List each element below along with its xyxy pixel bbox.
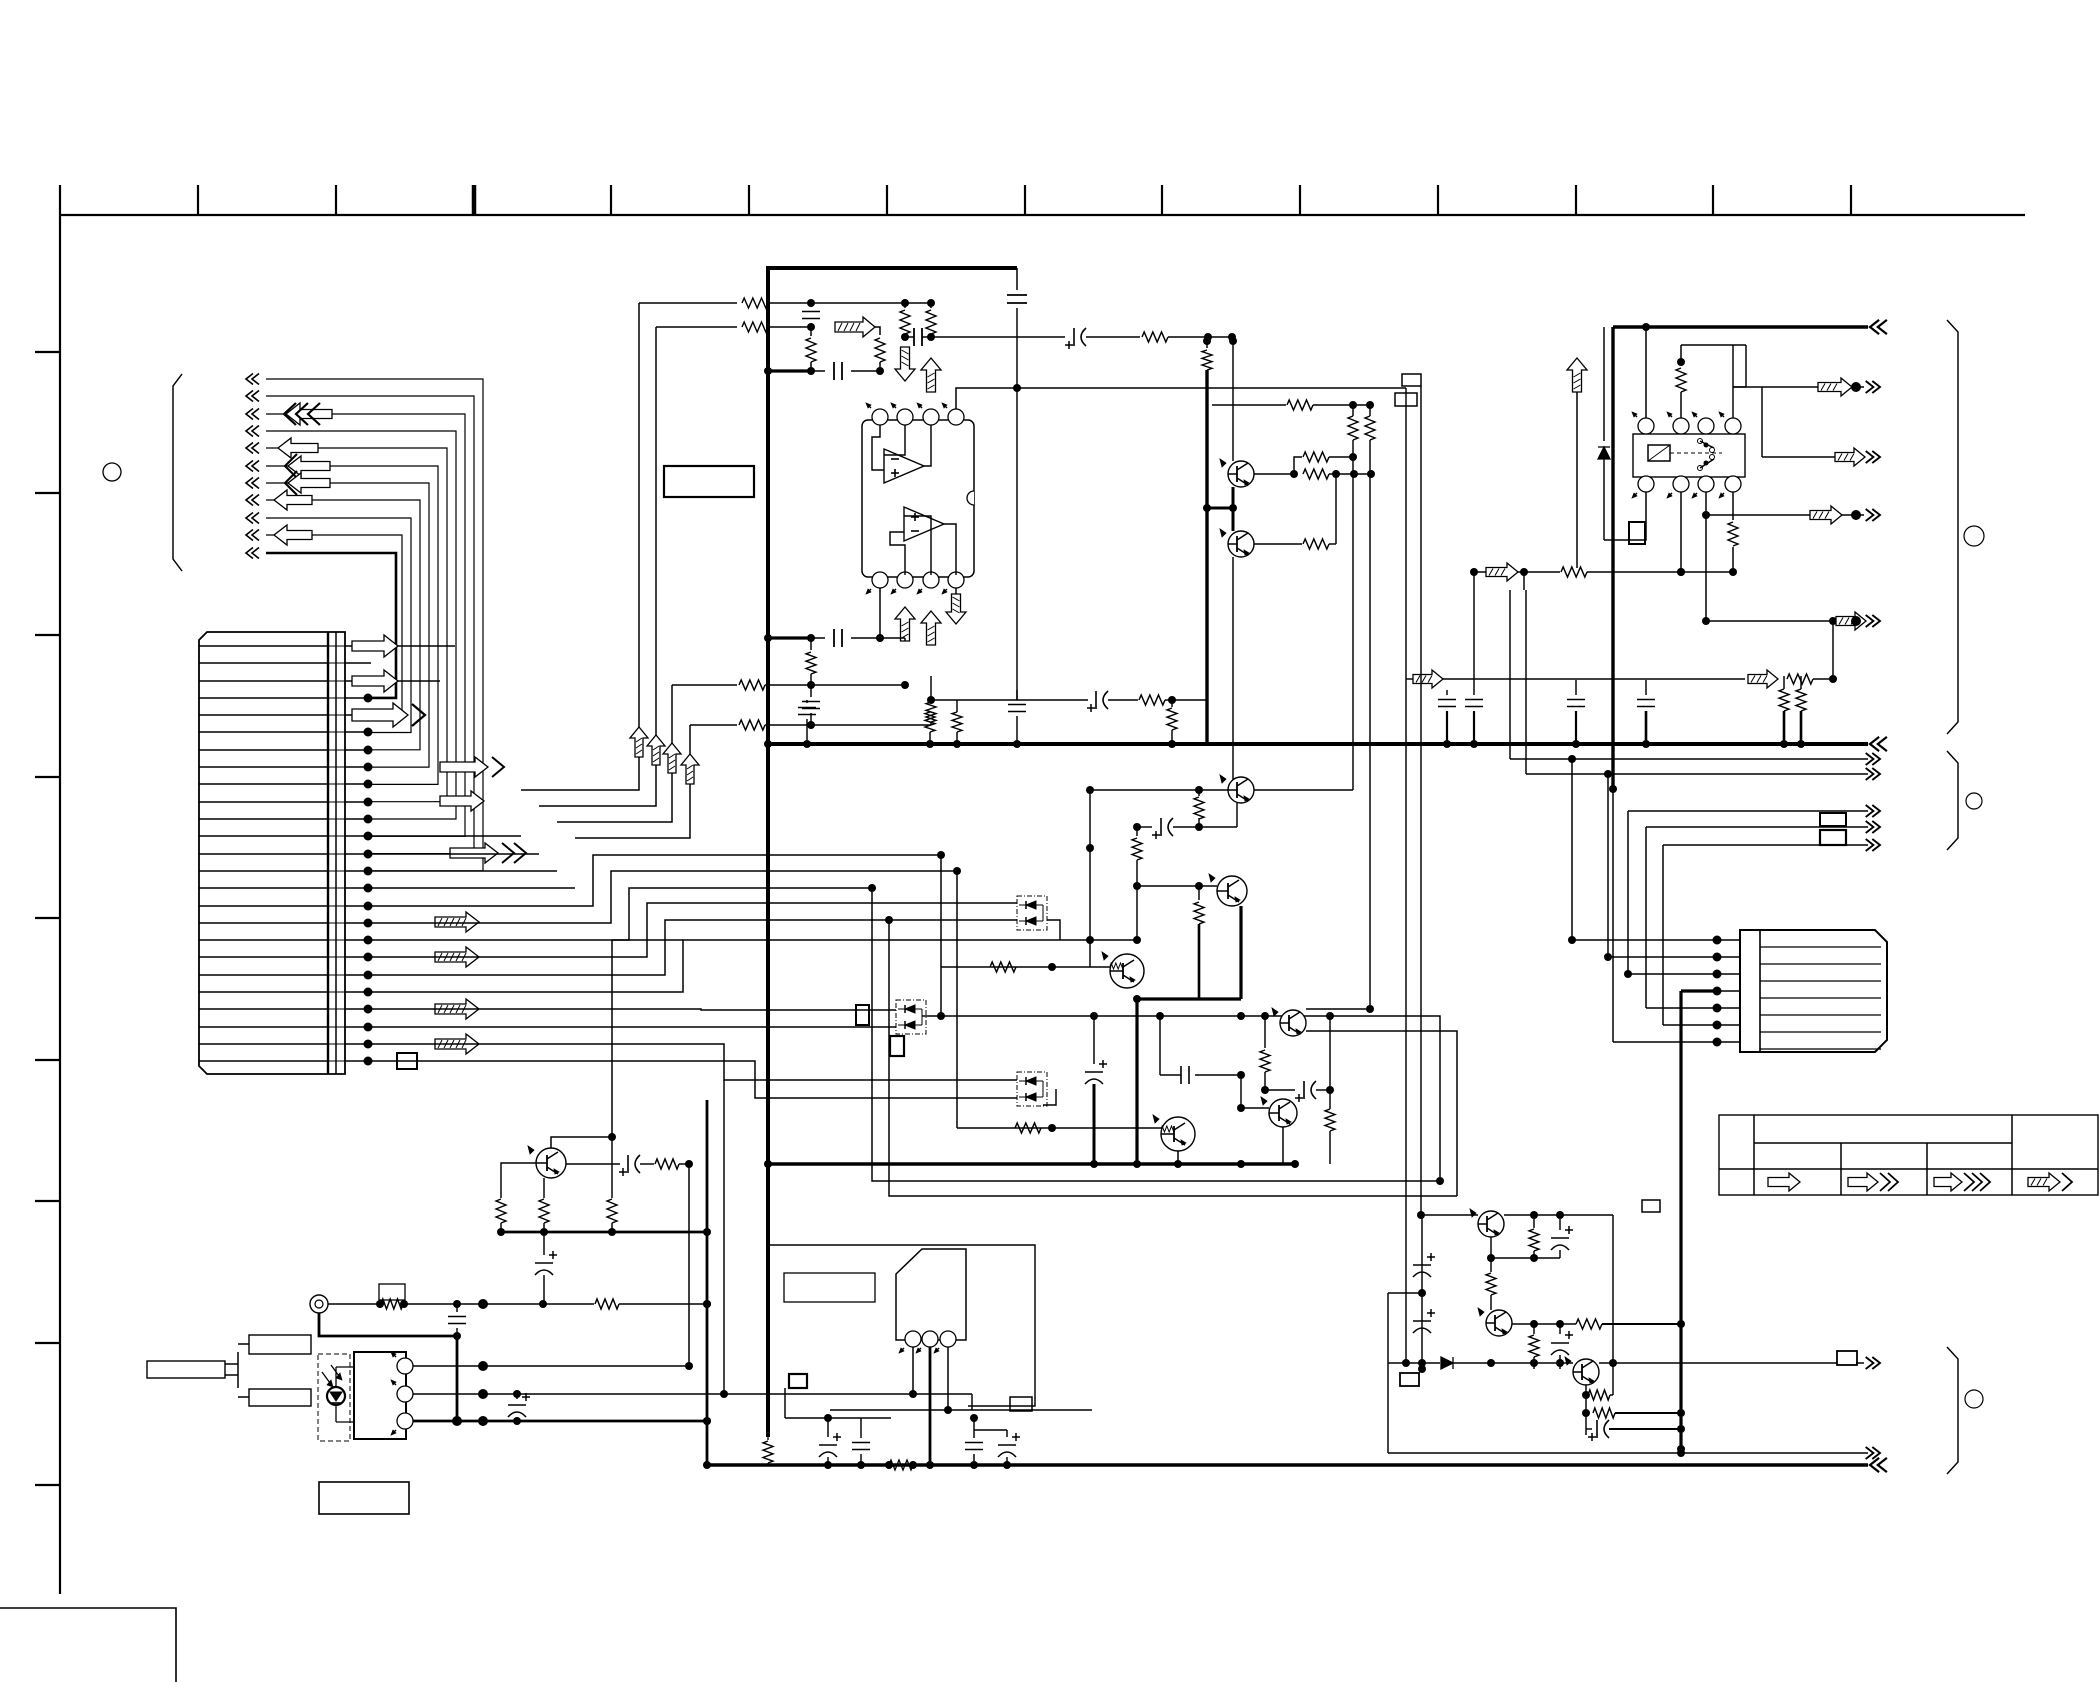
connector CN1 pin rows xyxy=(199,646,345,1061)
wire Q2 base xyxy=(1133,882,1217,890)
wire Q10 base left xyxy=(501,1163,536,1198)
wire y1418 xyxy=(785,1388,891,1418)
input arrow row5 xyxy=(278,438,318,458)
thick drop x1613 xyxy=(1609,327,1617,793)
bottom right box xyxy=(1388,1293,1422,1453)
motor pin4 thick wire xyxy=(1681,989,1714,992)
relay K1 pins bottom xyxy=(1632,476,1741,498)
mosfet pair M2 xyxy=(896,1000,926,1034)
wire M1 out xyxy=(1043,920,1137,940)
net label x1406 xyxy=(1395,393,1417,406)
wire y1258 xyxy=(1487,1254,1560,1262)
U1 internal wiring A xyxy=(872,425,931,470)
wire y1215 xyxy=(1422,1211,1613,1219)
IC label box xyxy=(664,466,754,497)
net label y1356 xyxy=(1837,1351,1857,1365)
vertical x1524 xyxy=(1523,572,1525,590)
output line y845 xyxy=(1663,844,1868,846)
electrolytic x517 xyxy=(508,1390,530,1421)
transistor Q6 darlington xyxy=(1153,1115,1195,1151)
net label box y818 xyxy=(1820,813,1846,826)
hatched up arrow riser3 xyxy=(663,743,681,773)
resistor y337 east xyxy=(1142,332,1236,342)
thick wire U2 pin2 xyxy=(926,1347,934,1469)
bus wire from pin 20 xyxy=(371,920,1017,975)
output chevron y845 xyxy=(1866,839,1880,851)
electrolytic y1090 xyxy=(1265,1016,1334,1102)
thick drop x1207 xyxy=(1205,370,1208,744)
output line y387 xyxy=(1733,378,1864,396)
capacitor bus x1447 xyxy=(1438,690,1456,748)
frame tick marks top xyxy=(60,185,1851,215)
opto body xyxy=(354,1352,406,1439)
connector CN1 body xyxy=(199,632,345,1074)
resistor ladder x1353 xyxy=(1348,405,1358,457)
wire y700 east xyxy=(931,699,1088,701)
output line y515 xyxy=(1702,506,1864,524)
resistor x1199 y806 xyxy=(1194,790,1204,831)
relay K1 pin top wire xyxy=(1645,327,1647,418)
wire Q5 emitter xyxy=(1282,1127,1284,1164)
long wire down x957 xyxy=(953,867,961,1128)
output chevron y515 xyxy=(1866,509,1880,521)
bus wire from pin 22 xyxy=(371,1009,896,1010)
input arrow row8 xyxy=(274,490,312,510)
input chevron row 2 with wire xyxy=(246,391,474,854)
vertical x1090 xyxy=(1086,790,1094,967)
hatched arrow feed B xyxy=(835,317,875,337)
electrolytic cap y700 xyxy=(1087,691,1138,712)
input chevron row 6 with wire xyxy=(246,461,438,785)
capacitor on bus x1017 xyxy=(1008,690,1026,748)
input chevron row 3 with wire xyxy=(246,409,465,837)
hatched up arrow riser4 xyxy=(681,754,699,784)
input arrow row6 xyxy=(285,454,330,478)
regulator enclosure box xyxy=(768,1245,1035,1406)
input chevron row 5 with wire xyxy=(246,443,447,802)
output chevron y811 xyxy=(1866,805,1880,817)
ground bus y1465 xyxy=(707,1463,1868,1467)
cap bus x861 xyxy=(852,1418,870,1469)
relay K1 pins top xyxy=(1632,412,1741,434)
wire pin8 down xyxy=(955,588,957,700)
net label M2b xyxy=(890,1036,904,1056)
resistor x544 xyxy=(539,1178,551,1236)
op-amp IC U1 body xyxy=(862,420,974,577)
mosfet pair M3 xyxy=(1017,1072,1047,1106)
output chevron y621 xyxy=(1866,615,1880,627)
wire y1363 long xyxy=(1388,1357,1573,1369)
transistor Q3 xyxy=(1220,775,1254,803)
relay wire pin7 down xyxy=(1702,492,1710,625)
hatched arrow pin21 xyxy=(435,999,479,1019)
capacitor bus x1646 xyxy=(1637,680,1655,748)
connector CN1 pin stubs xyxy=(345,646,371,1061)
wire x1762 xyxy=(1745,387,1762,457)
legend arrow plain xyxy=(1768,1173,1800,1191)
alignment circle right3 xyxy=(1965,1390,1983,1408)
hatched down arrow pin8 xyxy=(946,588,966,624)
relay K1 body xyxy=(1633,434,1745,477)
wire y940 crossover xyxy=(612,939,683,941)
wire A2 y685 xyxy=(672,680,909,690)
vertical x1663 to motor xyxy=(1662,845,1664,1025)
vertical x1572 to motor xyxy=(1568,759,1576,944)
ground bar y1167 xyxy=(768,1160,1299,1168)
resistor Q9a xyxy=(1588,1363,1613,1400)
wire y679 xyxy=(1406,670,1837,688)
capacitor C y638 xyxy=(811,629,905,647)
wire Q3b base xyxy=(1254,539,1336,549)
motor pin6 wire xyxy=(1663,1024,1714,1026)
resistor x501 xyxy=(496,1199,506,1236)
wire Q10 collector xyxy=(551,1133,616,1148)
ecap Q9c xyxy=(1586,1420,1685,1441)
bus wire riser 1 xyxy=(371,303,639,836)
resistor feed x1207 xyxy=(1202,337,1212,372)
resistor x1199 y912 xyxy=(1194,886,1204,999)
input chevron row 1 with wire xyxy=(246,374,483,871)
relay wire pin8 down xyxy=(1728,492,1738,572)
wire y1009 link xyxy=(1306,1008,1370,1010)
hatched up arrow x1577 xyxy=(1567,358,1587,392)
hatched down arrow pin2 xyxy=(895,347,915,381)
output chevron y457 xyxy=(1866,451,1880,463)
ground bus chevron xyxy=(1870,737,1887,751)
right bracket upper xyxy=(1947,320,1958,734)
motor pin5 wire xyxy=(1646,1007,1714,1009)
wire rca east xyxy=(328,1299,711,1309)
wire x1613 to motor pin7 xyxy=(1612,789,1614,1042)
vertical x689 xyxy=(688,1164,690,1366)
capacitor bus x1576 xyxy=(1567,680,1585,748)
ecap x1422b xyxy=(1413,1309,1435,1333)
bus wire riser 4 xyxy=(371,725,690,888)
net label box x1020 xyxy=(1010,1397,1032,1411)
signal arrow pin3 xyxy=(352,670,440,692)
motor pin1 wire xyxy=(1572,939,1714,941)
wire y1324 xyxy=(1512,1319,1681,1329)
vertical x612 up xyxy=(611,940,613,1137)
power rail top horizontal xyxy=(766,266,1017,270)
mosfet pair M1 xyxy=(1017,896,1047,930)
fuse box top link xyxy=(378,1284,380,1292)
relay wire pin5 down xyxy=(1604,492,1646,540)
capacitor y1075 xyxy=(1156,1012,1241,1084)
vertical x1370 long xyxy=(1366,474,1374,1013)
hatched up arrow pin3 xyxy=(921,358,941,392)
board label box bottom left xyxy=(319,1482,409,1514)
op-amp U1A xyxy=(884,449,924,483)
opto pin1 wire xyxy=(413,1361,693,1371)
transistor Q4 xyxy=(1272,1008,1306,1036)
net label box x1650 xyxy=(1642,1200,1660,1212)
wire Q6 emitter xyxy=(1174,1151,1182,1168)
output chevron y759 xyxy=(1866,753,1880,765)
resistor bus x1801 xyxy=(1796,676,1806,748)
resistor x1172 to bus xyxy=(1167,700,1177,748)
vertical x1092 xyxy=(1091,1167,1093,1410)
transistor Q1 darlington xyxy=(1102,952,1144,988)
vertical x1422 seg xyxy=(1418,1215,1426,1373)
resistor on bus x930 xyxy=(925,706,935,748)
output chevron y1453 xyxy=(1866,1447,1880,1459)
transistor Q2 xyxy=(1209,874,1247,906)
output line y759 xyxy=(1510,755,1868,763)
left connector bracket xyxy=(173,374,182,571)
output line y774 xyxy=(1526,770,1868,778)
wire input A y303 xyxy=(639,298,909,308)
wire y1410 xyxy=(830,1410,1092,1430)
motor pin dots xyxy=(1713,936,1722,1047)
resistor x1534b xyxy=(1529,1324,1539,1369)
vertical x1646 to motor xyxy=(1645,827,1647,1008)
wire M1 in xyxy=(872,902,880,904)
resistor x1137 y848 xyxy=(1132,827,1142,944)
electrolytic y827 xyxy=(1133,803,1237,839)
top right input chevron xyxy=(1870,320,1887,334)
motor pin7 wire xyxy=(1613,1041,1714,1043)
input chevron row 9 with wire xyxy=(246,513,411,733)
bus wire from pin 18 xyxy=(371,888,872,940)
electrolytic x544b xyxy=(535,1232,557,1304)
motor pin stubs xyxy=(1714,940,1740,1042)
wire M3 out xyxy=(1043,1089,1056,1105)
opto pin3 wire xyxy=(413,1416,711,1426)
transistor Q5 xyxy=(1261,1097,1297,1127)
ecap bus x1007 xyxy=(998,1430,1020,1469)
thick drop x1681 xyxy=(1677,991,1685,1453)
vertical x1510 xyxy=(1509,590,1511,759)
net label M2 xyxy=(856,1005,869,1025)
wire Q6 base xyxy=(957,1123,1161,1133)
wide input arrow row3 xyxy=(284,403,332,425)
bus wire from pin 16 xyxy=(371,855,941,906)
thick L Q2 xyxy=(1239,906,1242,999)
wire y572 relay feed xyxy=(1470,563,1737,581)
wire pin4 elbow xyxy=(956,384,1406,409)
connector CN1 label box xyxy=(397,1053,417,1069)
wire B2 y725 xyxy=(690,720,931,730)
output chevron y827 xyxy=(1866,821,1880,833)
wire y1453 xyxy=(1388,1449,1868,1457)
legend arrow chev2 xyxy=(1934,1173,1990,1191)
bus wire from pin 17 xyxy=(371,871,957,923)
connector CN1 pin junction dots xyxy=(364,694,373,1066)
alignment circle right2 xyxy=(1966,793,1982,809)
resistor x1265 y1060 xyxy=(1260,1012,1270,1094)
transistor Q3b xyxy=(1220,529,1254,557)
wire y1430 xyxy=(974,1429,1007,1431)
signal wire y337 east xyxy=(931,336,1065,338)
ecap x1422a xyxy=(1413,1232,1435,1297)
ecap bus x828 xyxy=(819,1414,841,1469)
cap bus x974 xyxy=(948,1414,983,1469)
legend arrow hatched xyxy=(2028,1173,2072,1191)
motor pin3 wire xyxy=(1628,973,1714,975)
capacitor C y371 xyxy=(811,362,880,380)
wire M3 in xyxy=(1013,1079,1017,1081)
resistor x1534a xyxy=(1529,1215,1539,1258)
bus wire from pin 21 xyxy=(371,940,1137,992)
opto isolator dashed box xyxy=(318,1354,350,1441)
thick drop x457 xyxy=(456,1336,459,1421)
resistor R3 x931 top xyxy=(926,303,936,341)
wire pin5 down xyxy=(876,588,884,642)
hatched up arrow riser2 xyxy=(647,735,665,765)
resistor bottom of rail x768 xyxy=(763,1437,773,1465)
transistor Q10 xyxy=(528,1146,566,1178)
thick stub y638 xyxy=(768,634,815,642)
resistor bus x1784 xyxy=(1779,676,1789,748)
vertical x1233 upper xyxy=(1229,337,1237,461)
capacitor coupling y337 xyxy=(905,328,931,346)
net label x1421 xyxy=(1402,374,1421,386)
resistor x1265 y1137 xyxy=(1265,1090,1335,1164)
net label x1409b xyxy=(1400,1373,1419,1386)
vertical x1406 lower xyxy=(1402,679,1410,1367)
regulator label box xyxy=(784,1273,875,1302)
wire Q7 emitter xyxy=(1490,1237,1492,1272)
wire y1026 elbow xyxy=(1306,1031,1457,1196)
wire input B y327 xyxy=(656,322,815,332)
capacitor C-top x1017 xyxy=(1007,268,1027,700)
wire U2 pin1 xyxy=(909,1347,917,1398)
hatched arrow pin23 xyxy=(435,1034,479,1054)
power rail vertical x768 xyxy=(766,268,770,1437)
vertical x1526 xyxy=(1510,590,1526,774)
thick stub y371 xyxy=(768,367,815,375)
input chevron row 11 with wire xyxy=(246,548,396,698)
U1 internal wiring B xyxy=(880,516,956,575)
resistor y700 east xyxy=(1139,695,1208,705)
output chevron y774 xyxy=(1866,768,1880,780)
wire y1016 long xyxy=(941,1012,1444,1185)
diode D1 xyxy=(1598,327,1610,540)
long wire down x941 xyxy=(937,851,945,1016)
legend arrow chev1 xyxy=(1848,1173,1898,1191)
transistor Q3a xyxy=(1220,459,1254,487)
hatched up arrow riser1 xyxy=(630,727,648,757)
electrolytic+res y1164 xyxy=(566,1155,693,1176)
wire relay to y387 xyxy=(1733,345,1746,387)
wire y590 pair xyxy=(1474,589,1510,591)
wire Q6 collector xyxy=(1186,1071,1265,1119)
thick wire top right y327 xyxy=(1613,323,1868,331)
input chevron row 7 with wire xyxy=(246,478,429,768)
legend table xyxy=(1719,1115,2098,1195)
rca jack J2 xyxy=(310,1295,328,1313)
output chevron y1363 xyxy=(1866,1357,1880,1369)
vertical x1608 to motor xyxy=(1604,774,1612,961)
hatched arrow pin16 xyxy=(435,912,479,932)
wire M2 pins xyxy=(922,1012,945,1020)
rail junction dots x768 xyxy=(764,367,772,1168)
ecap x1560a xyxy=(1551,1215,1573,1258)
wire x1833 down xyxy=(1832,621,1834,679)
capacitor C x811 upper xyxy=(802,303,820,327)
motor connector block xyxy=(1740,930,1887,1052)
relay K1 coil resistor xyxy=(1646,345,1746,418)
transistor Q8 xyxy=(1478,1308,1512,1336)
resistor Q9b xyxy=(1593,1408,1681,1418)
resistor x1491 xyxy=(1486,1273,1496,1310)
thick drop x1137 xyxy=(1135,999,1138,1167)
signal arrow pin13 xyxy=(450,843,526,863)
bus wire from pin 25 xyxy=(371,1061,1017,1098)
resistor R x811 mid xyxy=(806,327,816,371)
bus wire from pin 19 xyxy=(371,903,1017,957)
vertical x1336 xyxy=(1335,474,1337,544)
ground bus chevron bottom xyxy=(1870,1458,1887,1472)
vertical x724 xyxy=(723,1080,725,1394)
wire y457 elbow xyxy=(1294,452,1357,474)
vertical x1628 to motor xyxy=(1624,811,1632,978)
capacitor x811 y705 xyxy=(802,685,820,729)
output line y811 xyxy=(1628,810,1868,812)
resistor x612b xyxy=(607,1137,617,1236)
electrolytic x1094 xyxy=(1085,1012,1107,1167)
input chevron row 10 with wire xyxy=(246,530,402,716)
plug P1 body xyxy=(147,1335,311,1406)
wire Q9 emitter chain xyxy=(1582,1385,1590,1435)
thick bus y1232 xyxy=(499,1231,707,1234)
resistor bus series y1465 xyxy=(885,1460,917,1470)
signal arrow pin8 xyxy=(440,757,504,777)
long wire down x872 xyxy=(868,884,1440,1181)
wire y1394 xyxy=(700,1390,972,1410)
right bracket lower xyxy=(1947,1347,1958,1474)
wire Q5 base xyxy=(1237,1104,1269,1112)
wire Q3 collector top xyxy=(1086,786,1353,794)
alignment circle right1 xyxy=(1964,526,1984,546)
thick path rca xyxy=(319,1313,457,1336)
wire y303 extension to x931 xyxy=(880,299,935,307)
ecap x1560b xyxy=(1551,1324,1573,1369)
output line y827 xyxy=(1646,826,1868,828)
wire Q3a base xyxy=(1254,469,1375,479)
thick drop x707 xyxy=(703,1100,711,1469)
bus wire from pin 23 xyxy=(371,1026,896,1028)
net label box y836 xyxy=(1820,830,1846,845)
relay label box xyxy=(1629,522,1645,544)
wire Q10 emitter y1164 xyxy=(566,1162,614,1164)
vertical x1233 lower xyxy=(1232,557,1234,790)
hatched up arrow pin7 xyxy=(921,611,941,645)
thick bar y999 xyxy=(1133,995,1241,1003)
resistor R2 x905 top xyxy=(900,303,910,341)
input arrow row7 xyxy=(285,471,330,495)
vertical x1035b xyxy=(1034,1245,1036,1406)
output chevron y387 xyxy=(1866,381,1880,393)
title block corner box xyxy=(0,1608,176,1682)
opto arrows xyxy=(322,1365,342,1387)
vertical x1613b xyxy=(1613,1215,1615,1395)
signal arrow pin10 xyxy=(440,791,484,811)
motor pin2 wire xyxy=(1608,956,1714,958)
elbow B to resistor xyxy=(875,327,885,375)
fuse/jumper box xyxy=(379,1284,405,1304)
opto pins xyxy=(391,1352,413,1435)
border frame top rule xyxy=(60,214,2025,216)
bus wire from pin 24 xyxy=(371,1044,1017,1080)
bus wire riser 3 xyxy=(371,685,672,871)
long wire down x889 xyxy=(885,916,1457,1196)
bus wire riser 2 xyxy=(371,327,656,854)
signal arrow pin5 xyxy=(352,703,425,727)
op-amp U1B xyxy=(904,507,944,541)
wire Q4 collector xyxy=(1293,777,1330,1018)
